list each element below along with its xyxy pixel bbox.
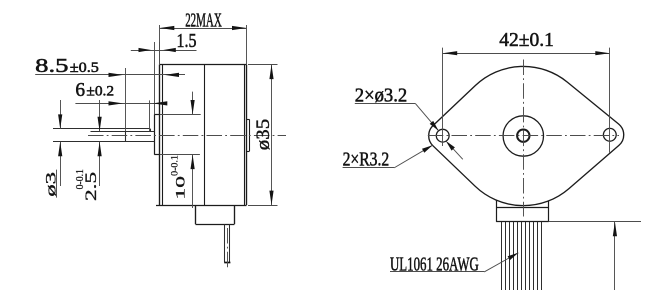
svg-text:±0.5: ±0.5 <box>70 60 99 76</box>
svg-text:±0.2: ±0.2 <box>86 83 114 99</box>
svg-text:1.5: 1.5 <box>177 30 197 52</box>
svg-text:42±0.1: 42±0.1 <box>499 29 554 51</box>
svg-text:ø3: ø3 <box>44 172 60 197</box>
svg-text:2×ø3.2: 2×ø3.2 <box>355 86 407 107</box>
svg-text:UL1061 26AWG: UL1061 26AWG <box>390 254 479 276</box>
svg-text:2×R3.2: 2×R3.2 <box>343 149 390 170</box>
svg-text:22MAX: 22MAX <box>185 9 222 31</box>
svg-text:8.5: 8.5 <box>35 55 68 77</box>
svg-text:0-0.1: 0-0.1 <box>75 169 86 189</box>
svg-text:10: 10 <box>172 176 187 200</box>
svg-text:ø35: ø35 <box>253 119 274 151</box>
svg-text:0-0.1: 0-0.1 <box>170 155 181 176</box>
svg-text:6: 6 <box>75 79 85 101</box>
